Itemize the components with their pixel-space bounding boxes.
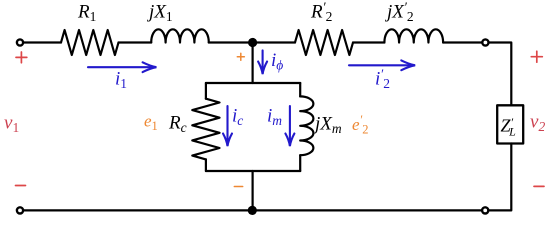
wire	[353, 41, 384, 43]
wire	[209, 41, 295, 43]
polarity plus shunt	[237, 53, 244, 60]
resistor R1	[61, 30, 119, 55]
wire	[205, 83, 207, 99]
current arrow ic	[223, 106, 232, 146]
svg-text:im: im	[267, 106, 282, 129]
svg-text:jX′2: jX′2	[384, 0, 414, 24]
terminal bottom-left	[17, 207, 23, 213]
svg-text:e1: e1	[144, 112, 158, 134]
polarity minus shunt	[234, 186, 242, 188]
inductor jX'2	[384, 29, 443, 42]
wire	[489, 144, 511, 211]
svg-text:iϕ: iϕ	[271, 50, 283, 73]
svg-text:i′2: i′2	[375, 67, 390, 92]
wire	[443, 41, 482, 43]
svg-text:Rc: Rc	[168, 113, 187, 136]
resistor R'2	[295, 30, 353, 55]
resistor Rc	[192, 99, 219, 160]
terminal top-right	[482, 39, 488, 45]
wire shunt top bar	[206, 82, 300, 84]
svg-text:e′2: e′2	[352, 113, 369, 137]
inductor jXm	[300, 96, 313, 155]
polarity minus right	[534, 185, 544, 187]
wire	[299, 83, 301, 96]
wire shunt stub top	[252, 43, 254, 84]
polarity plus right	[531, 51, 542, 62]
current arrow i'2	[349, 60, 415, 70]
wire shunt stub bottom	[252, 171, 254, 210]
node top junction	[248, 38, 257, 47]
current arrow im	[285, 106, 294, 146]
load Z'L box	[497, 105, 523, 143]
wire	[299, 155, 301, 171]
wire shunt bottom bar	[206, 170, 300, 172]
inductor jX1	[151, 29, 209, 42]
svg-text:jX1: jX1	[146, 2, 173, 25]
svg-text:v1: v1	[4, 113, 19, 136]
wire	[24, 41, 61, 43]
svg-text:R′2: R′2	[310, 0, 332, 24]
terminal bottom-right	[482, 207, 488, 213]
node bottom junction	[248, 206, 257, 215]
wire	[205, 159, 207, 171]
svg-text:R1: R1	[77, 2, 96, 25]
current arrow i1	[88, 62, 156, 72]
svg-text:jXm: jXm	[312, 114, 342, 137]
wire	[119, 41, 152, 43]
wire bottom	[24, 209, 482, 211]
terminal top-left	[17, 39, 23, 45]
svg-text:ic: ic	[232, 106, 243, 129]
polarity plus left	[16, 52, 27, 63]
current arrow i-phi	[258, 50, 267, 74]
polarity minus left	[16, 185, 26, 187]
svg-text:v2: v2	[530, 112, 545, 135]
svg-text:i1: i1	[115, 69, 127, 92]
wire	[489, 43, 511, 106]
